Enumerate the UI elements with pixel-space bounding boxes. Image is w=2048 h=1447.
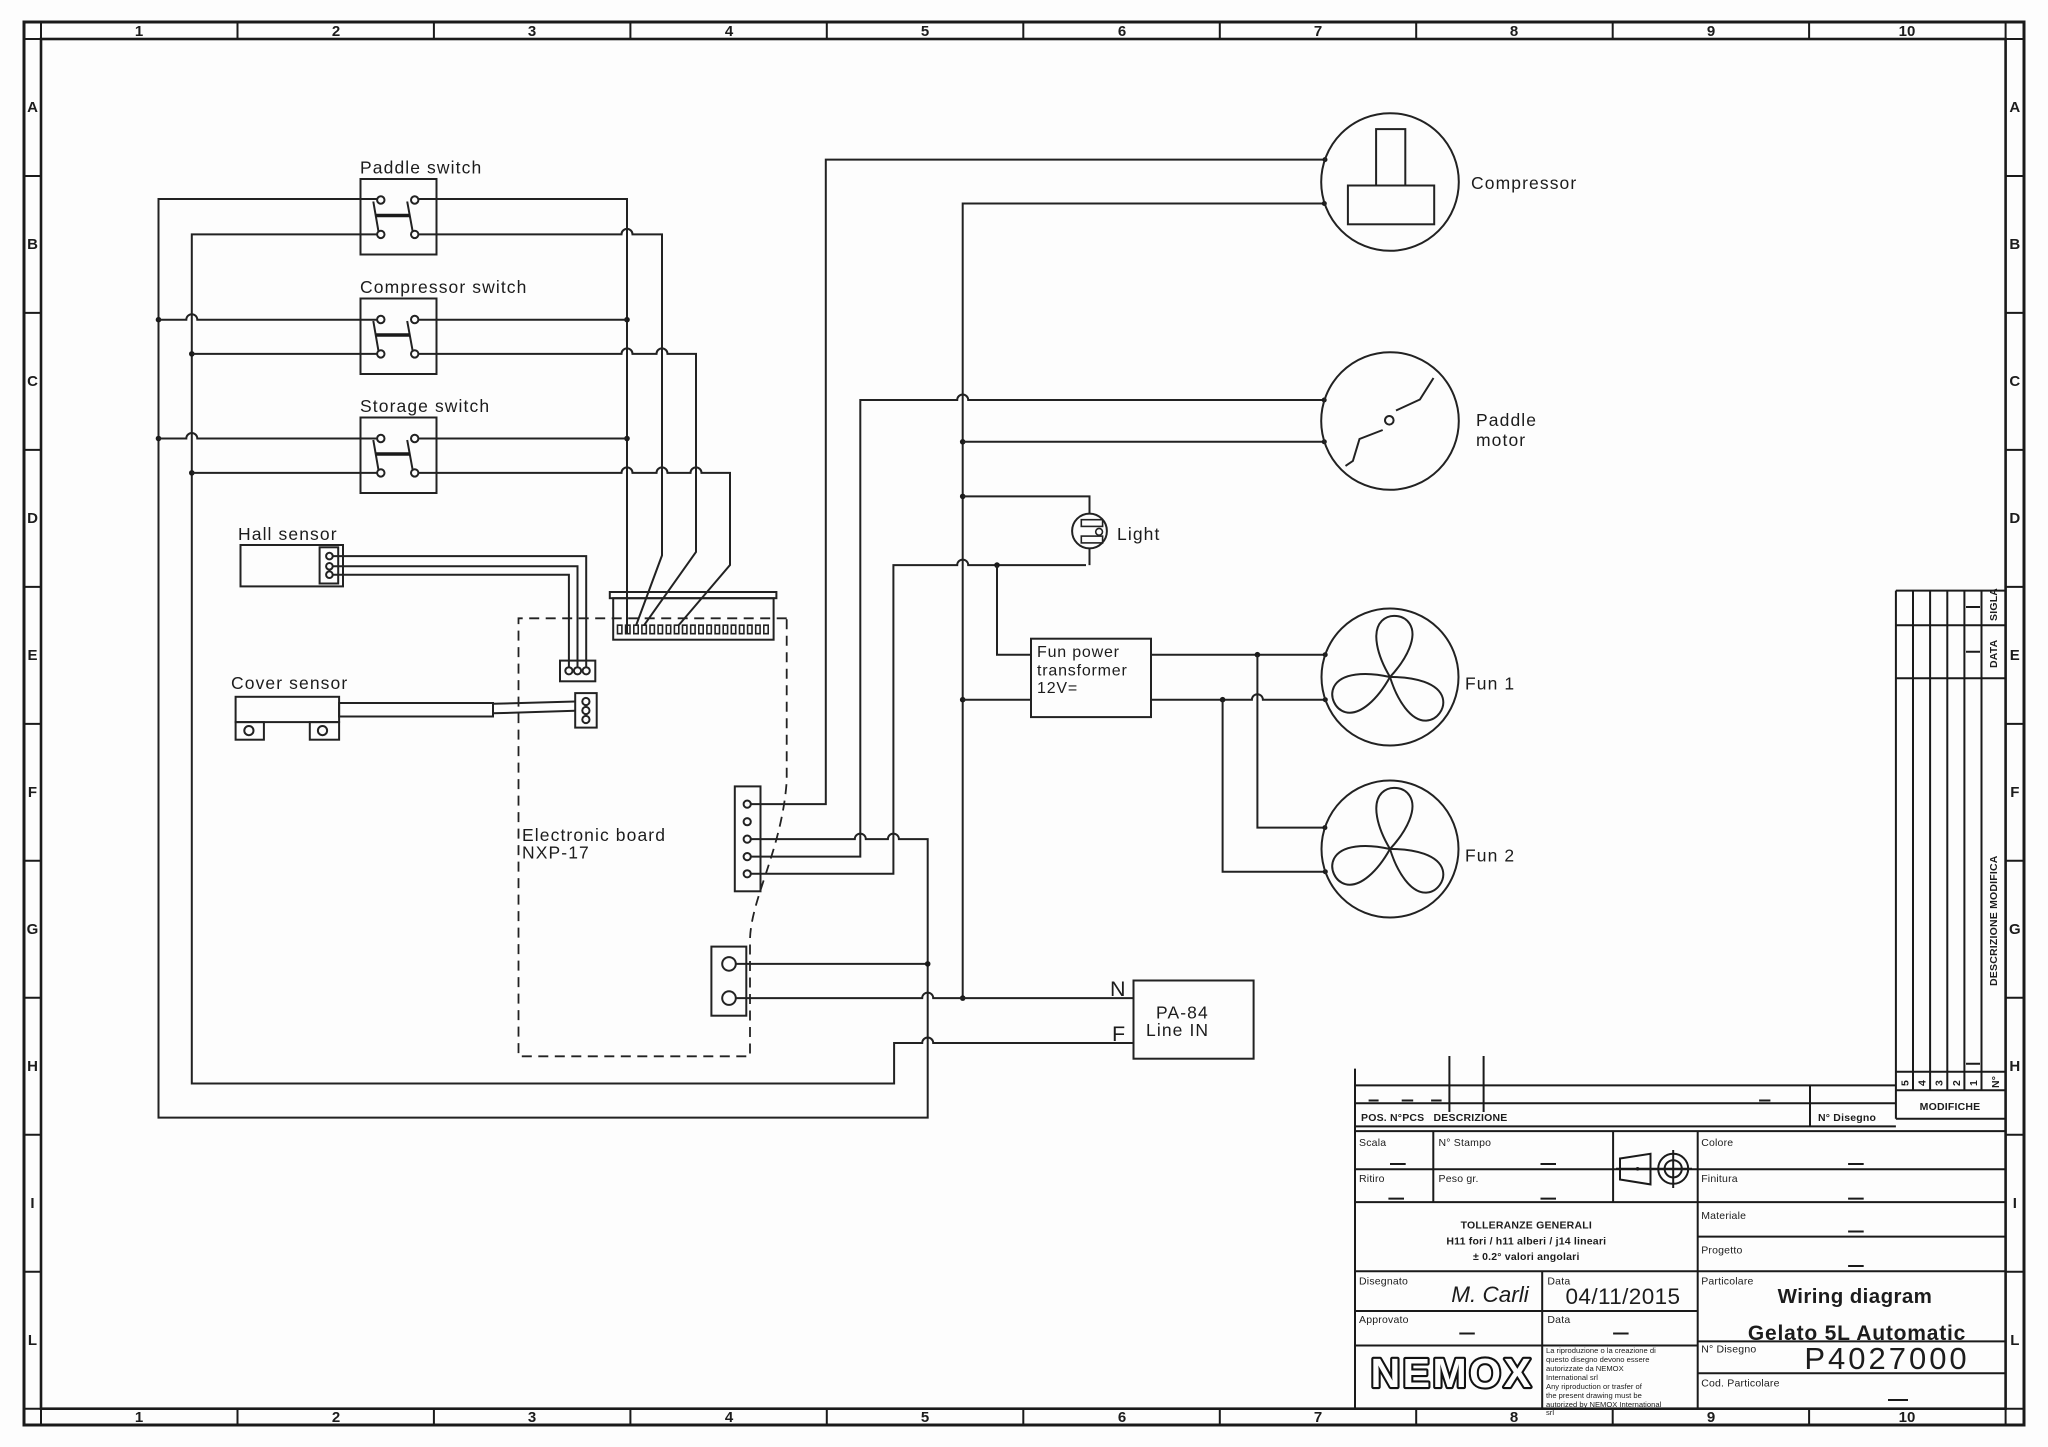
svg-text:12V=: 12V= <box>1037 680 1078 697</box>
svg-text:Scala: Scala <box>1359 1137 1386 1149</box>
svg-text:M. Carli: M. Carli <box>1451 1282 1529 1307</box>
svg-text:3: 3 <box>1934 1080 1946 1086</box>
svg-text:N: N <box>1110 977 1126 1001</box>
svg-text:transformer: transformer <box>1037 663 1128 680</box>
svg-text:E: E <box>2010 647 2020 664</box>
svg-text:autorized by NEMOX Internation: autorized by NEMOX International <box>1546 1400 1662 1409</box>
svg-text:H: H <box>2009 1058 2020 1075</box>
junction (191.8,353.9) <box>189 351 195 357</box>
connector CN1 board strip (19 pins) <box>610 592 777 640</box>
wire: Fun 2 top feed (drop x=1257.4, y=827.6) <box>1257 655 1325 828</box>
cover sensor <box>231 673 493 740</box>
modifiche table <box>1896 588 2006 1119</box>
svg-text:DATA: DATA <box>1988 639 2000 668</box>
svg-text:Approvato: Approvato <box>1359 1314 1409 1326</box>
svg-text:P4027000: P4027000 <box>1804 1341 1969 1376</box>
title block: main grid <box>1355 1131 2006 1409</box>
svg-text:4: 4 <box>1917 1080 1929 1086</box>
svg-text:5: 5 <box>921 23 929 40</box>
svg-text:Fun 1: Fun 1 <box>1465 674 1515 694</box>
wire: transformer secondary bottom to Fun 1 (junction x=1222.6, hop x=1257.4) <box>1151 694 1325 700</box>
svg-text:NEMOX: NEMOX <box>1371 1350 1534 1396</box>
wire: storage switch top west (hop over x=191.8) <box>159 433 628 439</box>
wire: 2-pin top pin to N riser junction <box>736 963 928 965</box>
wire: compressor switch bottom, riser x=696, diagonal into connector slot 4 <box>192 348 696 625</box>
svg-text:Cover sensor: Cover sensor <box>231 673 348 693</box>
connector J1 hall 3-pin <box>560 661 595 682</box>
svg-text:Line IN: Line IN <box>1146 1020 1209 1040</box>
connector J2 cover 3-pin <box>575 693 597 728</box>
switch SW2 Compressor switch <box>360 277 527 374</box>
svg-text:04/11/2015: 04/11/2015 <box>1566 1284 1681 1309</box>
svg-text:± 0.2° valori angolari: ± 0.2° valori angolari <box>1473 1251 1580 1263</box>
svg-text:1: 1 <box>135 1409 143 1426</box>
svg-text:2: 2 <box>1951 1080 1963 1086</box>
svg-text:G: G <box>2009 921 2021 938</box>
svg-text:questo disegno devono essere: questo disegno devono essere <box>1546 1355 1649 1364</box>
svg-text:4: 4 <box>725 1409 734 1426</box>
light L1 <box>1072 514 1160 549</box>
svg-text:N° Stampo: N° Stampo <box>1439 1137 1492 1149</box>
junction (627,438.5) <box>624 436 630 442</box>
svg-text:E: E <box>27 647 37 664</box>
svg-text:N° Disegno: N° Disegno <box>1818 1112 1876 1124</box>
svg-text:2: 2 <box>332 1409 340 1426</box>
svg-text:8: 8 <box>1510 23 1518 40</box>
svg-text:Any riproduction or trasfer of: Any riproduction or trasfer of <box>1546 1382 1643 1391</box>
terminal dots <box>1323 157 1328 162</box>
hall sensor <box>238 524 343 586</box>
svg-text:9: 9 <box>1707 1409 1715 1426</box>
svg-text:Wiring diagram: Wiring diagram <box>1778 1285 1933 1308</box>
svg-text:Ritiro: Ritiro <box>1359 1173 1385 1185</box>
svg-text:La riproduzione o la creazione: La riproduzione o la creazione di <box>1546 1346 1656 1355</box>
junction (962.7,998.1) <box>960 995 966 1001</box>
svg-text:POS. N°PCS: POS. N°PCS <box>1361 1112 1424 1124</box>
fan M4 Fun 2 <box>1322 781 1516 918</box>
junction (927.7,963.9) <box>925 961 931 967</box>
svg-text:Paddle: Paddle <box>1476 410 1537 430</box>
svg-text:NXP-17: NXP-17 <box>522 843 590 863</box>
svg-text:Fun 2: Fun 2 <box>1465 846 1515 866</box>
wire: cover sensor lead 2 <box>493 711 575 714</box>
wire: Fun 2 bottom feed (drop x=1222.6, y=871.7) <box>1223 700 1326 872</box>
svg-text:8: 8 <box>1510 1409 1518 1426</box>
wire: 5-pin pin1 to compressor live (riser x=825.8, y=159.6) <box>751 160 1325 805</box>
title block: tolerances text <box>1446 1220 1606 1264</box>
svg-text:International srl: International srl <box>1546 1373 1598 1382</box>
wire: storage switch bottom, riser x=730, diagonal into connector slot 8 <box>192 467 730 626</box>
svg-text:B: B <box>27 236 38 253</box>
svg-text:3: 3 <box>528 23 536 40</box>
svg-text:Peso gr.: Peso gr. <box>1439 1173 1479 1185</box>
wire: compressor switch top west (hop over x=191.8) <box>159 314 628 320</box>
svg-text:6: 6 <box>1118 23 1126 40</box>
wire: paddle switch bottom east, riser x=662, diagonal into connector slot 3 <box>418 229 662 626</box>
wire: N loop (paddle/compressor/storage top feed, left bus x=158.5, bottom run y=1117.6, riser x=927.7, 5-pin pin3 lead y=839.1) <box>159 199 928 1118</box>
svg-text:Compressor switch: Compressor switch <box>360 277 527 297</box>
wire: paddle switch top east to board riser x=627 into connector slot 2 <box>418 199 627 633</box>
title block: NEMOX logo <box>1371 1350 1534 1396</box>
switch SW1 Paddle switch <box>360 158 482 255</box>
connector J3 board 5-pin <box>735 786 761 891</box>
switch SW3 Storage switch <box>360 396 490 493</box>
svg-text:A: A <box>27 99 38 116</box>
svg-text:the present drawing must be: the present drawing must be <box>1546 1391 1642 1400</box>
svg-text:motor: motor <box>1476 430 1526 450</box>
svg-text:I: I <box>30 1195 34 1212</box>
wire: hall sensor pin1 to 3-pin connector <box>333 556 587 667</box>
svg-text:TOLLERANZE GENERALI: TOLLERANZE GENERALI <box>1461 1220 1592 1232</box>
svg-text:Data: Data <box>1547 1314 1570 1326</box>
svg-text:B: B <box>2009 236 2020 253</box>
svg-text:D: D <box>27 510 38 527</box>
svg-text:Materiale: Materiale <box>1701 1210 1746 1222</box>
svg-text:Cod. Particolare: Cod. Particolare <box>1701 1378 1779 1390</box>
wire: F loop (paddle/compressor/storage bottom feed, left bus x=191.8, bottom run y=1083.5, riser x=894.1, to PA-84 F input) <box>192 234 1134 1083</box>
svg-text:Disegnato: Disegnato <box>1359 1276 1408 1288</box>
svg-text:6: 6 <box>1118 1409 1126 1426</box>
svg-text:SIGLA: SIGLA <box>1988 588 2000 621</box>
svg-text:3: 3 <box>528 1409 536 1426</box>
wire: paddle motor bottom from bus <box>963 441 1325 443</box>
paddle motor M2 <box>1321 352 1537 490</box>
svg-text:4: 4 <box>725 23 734 40</box>
svg-text:I: I <box>2013 1195 2017 1212</box>
svg-text:Finitura: Finitura <box>1701 1173 1738 1185</box>
svg-text:C: C <box>2009 373 2020 390</box>
title block: first-angle projection symbol <box>1616 1150 1692 1188</box>
PA-84 line in box <box>1134 981 1254 1059</box>
svg-text:DESCRIZIONE MODIFICA: DESCRIZIONE MODIFICA <box>1988 855 2000 986</box>
junction (962.7,496.4) <box>960 494 966 500</box>
svg-text:Progetto: Progetto <box>1701 1245 1742 1257</box>
svg-text:F: F <box>1112 1022 1125 1046</box>
svg-text:L: L <box>28 1332 37 1349</box>
svg-text:9: 9 <box>1707 23 1715 40</box>
frame column ticks <box>238 22 1810 1425</box>
junction (158.5,438.5) <box>156 436 162 442</box>
junction (627,319.7) <box>624 317 630 323</box>
wire: hall sensor pin2 to 3-pin connector <box>333 566 578 667</box>
svg-text:N°: N° <box>1990 1076 2002 1088</box>
svg-text:autorizzate da NEMOX: autorizzate da NEMOX <box>1546 1364 1624 1373</box>
wire: hall sensor pin3 to 3-pin connector <box>333 575 569 668</box>
svg-text:H11 fori / h11 alberi / j14 li: H11 fori / h11 alberi / j14 lineari <box>1446 1236 1606 1248</box>
svg-text:5: 5 <box>921 1409 929 1426</box>
svg-text:DESCRIZIONE: DESCRIZIONE <box>1434 1112 1508 1124</box>
svg-text:H: H <box>27 1058 38 1075</box>
svg-text:7: 7 <box>1314 23 1322 40</box>
junction (158.5,319.7) <box>156 317 162 323</box>
junction (962.7,441.8) <box>960 439 966 445</box>
svg-text:Compressor: Compressor <box>1471 173 1577 193</box>
svg-text:G: G <box>27 921 39 938</box>
wire: N line from 2-pin bottom pin to PA-84 (hop riser x=927.7) <box>736 993 1134 998</box>
svg-text:L: L <box>2010 1332 2019 1349</box>
title block: legal notice text <box>1546 1346 1662 1417</box>
svg-text:N° Disegno: N° Disegno <box>1701 1344 1756 1356</box>
junction (997,565.1) transformer tap <box>994 562 1000 568</box>
wire: neutral bus (compressor bottom y=203.5, riser x=962.7 down to N) <box>963 204 1325 999</box>
svg-text:5: 5 <box>1900 1080 1912 1086</box>
svg-text:MODIFICHE: MODIFICHE <box>1920 1101 1981 1113</box>
svg-text:1: 1 <box>1968 1080 1980 1086</box>
svg-text:Hall sensor: Hall sensor <box>238 524 338 544</box>
svg-text:Light: Light <box>1117 524 1160 544</box>
wire: 5-pin pin4 to paddle motor (riser x=860.3, y=400, hop bus) <box>751 395 1324 857</box>
svg-text:Storage switch: Storage switch <box>360 396 490 416</box>
wire: light top from bus (corner x=1089.5) <box>963 496 1090 513</box>
svg-text:10: 10 <box>1899 23 1916 40</box>
svg-text:2: 2 <box>332 23 340 40</box>
svg-text:7: 7 <box>1314 1409 1322 1426</box>
junction (1222.6,699.7) <box>1220 697 1226 703</box>
connector J4 line 2-pin <box>711 947 746 1016</box>
svg-text:F: F <box>2010 784 2019 801</box>
transformer T1 fun power <box>1031 639 1151 717</box>
junction (1257.4,654.7) <box>1255 652 1261 658</box>
compressor M1 <box>1321 113 1577 251</box>
wire: 5-pin pin5 to light bottom (riser x=893.4, y=565.1, hop bus) <box>751 549 1090 874</box>
junction (962.7,699.7) <box>960 697 966 703</box>
svg-text:1: 1 <box>135 23 143 40</box>
svg-text:Fun power: Fun power <box>1037 644 1120 661</box>
junction (191.8,472.9) <box>189 470 195 476</box>
svg-text:Paddle switch: Paddle switch <box>360 158 482 178</box>
svg-text:Colore: Colore <box>1701 1137 1733 1149</box>
wire: cover sensor lead 1 <box>493 702 575 704</box>
wire: transformer secondary top to Fun 1 (junction x=1257.4) <box>1151 654 1325 656</box>
wire: transformer primary top from light circuit tap x=997 <box>997 565 1031 655</box>
svg-text:10: 10 <box>1899 1409 1916 1426</box>
svg-text:A: A <box>2009 99 2020 116</box>
electronic board NXP-17 dashed outline <box>519 618 787 1056</box>
fan M3 Fun 1 <box>1322 609 1516 746</box>
svg-text:Particolare: Particolare <box>1701 1276 1753 1288</box>
title block: POS table <box>1355 1056 1896 1409</box>
svg-text:srl: srl <box>1546 1408 1554 1417</box>
svg-text:F: F <box>28 784 37 801</box>
frame row ticks <box>24 176 2024 1272</box>
svg-text:C: C <box>27 373 38 390</box>
svg-text:D: D <box>2009 510 2020 527</box>
wire: transformer primary bottom from bus <box>963 699 1031 701</box>
